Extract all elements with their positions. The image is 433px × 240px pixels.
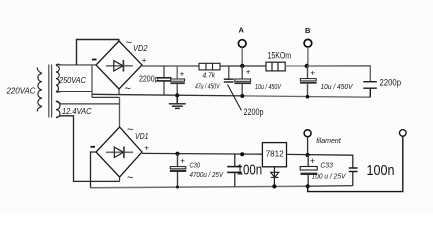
- svg-text:100n: 100n: [367, 162, 395, 179]
- junction dot 10u A on rail: [240, 94, 244, 98]
- svg-text:+: +: [246, 68, 251, 77]
- capacitor 10u/450V (node A) electrolytic: [234, 66, 251, 96]
- capacitor 2200p (after VD2): [157, 66, 172, 95]
- svg-text:+: +: [180, 69, 185, 78]
- svg-text:filament: filament: [316, 136, 341, 145]
- junction dot 47u on rail: [175, 93, 179, 97]
- resistor 15kOm: [266, 62, 285, 71]
- wire VD1 minus down to ground rail: [91, 152, 97, 188]
- wire VD1 bottom vertex stub: [119, 177, 121, 181]
- regulator 7812: [262, 143, 286, 167]
- wire 250VAC bottom lead: [57, 91, 92, 93]
- wire junction down to VD1 top vertex: [119, 97, 121, 127]
- junction dot node A: [240, 64, 244, 68]
- diode inside VD1: [106, 147, 133, 159]
- VD2 minus mark: [92, 59, 97, 61]
- capacitor 10u/450V (node B) electrolytic: [300, 66, 317, 97]
- wire 12.4VAC top lead: [61, 103, 120, 105]
- svg-text:~: ~: [127, 124, 133, 136]
- capacitor 100n: [227, 154, 242, 187]
- wire 4.7k to 15kOm: [220, 65, 266, 67]
- bridge rectifier VD1: [96, 127, 142, 177]
- diode inside VD2: [106, 60, 133, 72]
- svg-text:VD1: VD1: [135, 132, 149, 141]
- svg-text:~: ~: [125, 83, 131, 95]
- wire 250VAC top lead to VD2 left vertex: [59, 64, 96, 66]
- capacitor 2200p (right): [363, 82, 377, 98]
- wire node B to right 2200p: [307, 66, 371, 82]
- svg-text:2200p: 2200p: [380, 77, 402, 88]
- wire node A down: [241, 47, 243, 66]
- wire 100n right bottom to ground dot: [308, 185, 353, 188]
- svg-text:C33: C33: [320, 161, 333, 170]
- svg-text:4.7k: 4.7k: [203, 72, 216, 79]
- wire VD2 bottom vertex stub: [118, 89, 120, 95]
- svg-text:C30: C30: [190, 161, 201, 170]
- transformer T1 secondary 12.4VAC coil: [56, 101, 61, 118]
- bridge rectifier VD2: [96, 41, 142, 89]
- svg-text:15KOm: 15KOm: [268, 51, 292, 62]
- wire second lower rail to VD1: [92, 96, 120, 98]
- plus rail from VD2 to 4.7k resistor: [142, 65, 199, 67]
- svg-text:+: +: [144, 144, 149, 153]
- svg-text:47u / 450V: 47u / 450V: [195, 82, 220, 91]
- ground symbol: [169, 95, 186, 108]
- resistor 4.7k: [199, 63, 220, 70]
- wire 7812 ground pin: [273, 167, 275, 187]
- wire node B down: [307, 47, 309, 66]
- junction dot node B: [305, 64, 309, 68]
- bottom rail of top section (right gray part): [242, 96, 370, 97]
- svg-text:2200p: 2200p: [139, 75, 159, 84]
- junction dot filament: [306, 153, 310, 157]
- filament terminal: [304, 130, 311, 137]
- transformer T1 primary coil: [37, 68, 42, 112]
- wire VD2 left vertex down to bottom rail: [91, 65, 93, 98]
- wire ground step to right terminal: [308, 136, 403, 191]
- svg-text:100n: 100n: [237, 161, 263, 178]
- svg-text:7812: 7812: [266, 148, 284, 158]
- svg-text:+: +: [180, 157, 185, 166]
- capacitor C33 100u/25V electrolytic: [300, 155, 317, 188]
- svg-text:100 u / 25V: 100 u / 25V: [312, 171, 347, 180]
- svg-text:~: ~: [127, 172, 133, 184]
- leader line for 2200p label: [228, 85, 242, 111]
- junction dot 10u B on rail: [306, 95, 310, 99]
- output rail 7812 to right: [287, 154, 353, 168]
- svg-text:B: B: [305, 26, 311, 35]
- bottom rail of top section (left black part): [92, 94, 242, 96]
- transformer T1 core: [49, 65, 52, 118]
- svg-text:2200p: 2200p: [244, 107, 264, 117]
- right output terminal: [400, 130, 407, 137]
- capacitor C30 4700u/25V electrolytic: [170, 152, 186, 189]
- VD1 minus mark: [91, 146, 96, 148]
- ground rail (gray): [91, 186, 308, 188]
- svg-text:220VAC: 220VAC: [6, 86, 37, 96]
- wire 250VAC top branch up and over to VD2 top vertex: [77, 40, 119, 65]
- junction dot near 100n: [240, 152, 244, 156]
- svg-text:+: +: [310, 156, 315, 166]
- capacitor 2200p (at 4.7k output): [224, 66, 234, 82]
- svg-text:4700u / 25V: 4700u / 25V: [190, 170, 224, 179]
- svg-text:10u / 450V: 10u / 450V: [255, 82, 282, 91]
- svg-text:12.4VAC: 12.4VAC: [62, 107, 92, 116]
- svg-text:10u / 450V: 10u / 450V: [321, 82, 354, 91]
- svg-text:+: +: [142, 56, 147, 65]
- transformer T1 secondary 250VAC coil: [56, 64, 61, 92]
- diode below 7812: [271, 172, 279, 177]
- svg-text:250VAC: 250VAC: [58, 76, 86, 85]
- svg-text:VD2: VD2: [133, 44, 148, 53]
- svg-text:A: A: [239, 26, 245, 35]
- svg-text:~: ~: [126, 37, 132, 49]
- junction dot 7812 ground: [272, 184, 276, 188]
- svg-text:+: +: [310, 68, 315, 77]
- wire filament down: [307, 137, 309, 155]
- node B terminal: [304, 39, 312, 47]
- capacitor 100n (right): [349, 168, 358, 186]
- wire 12.4VAC bottom lead down and right to VD1 bottom: [61, 116, 120, 182]
- plus rail VD1 to 7812: [142, 152, 262, 155]
- wire 15kOm to node B: [285, 65, 307, 67]
- capacitor 47u/450V electrolytic: [170, 66, 184, 95]
- node A terminal: [238, 40, 246, 48]
